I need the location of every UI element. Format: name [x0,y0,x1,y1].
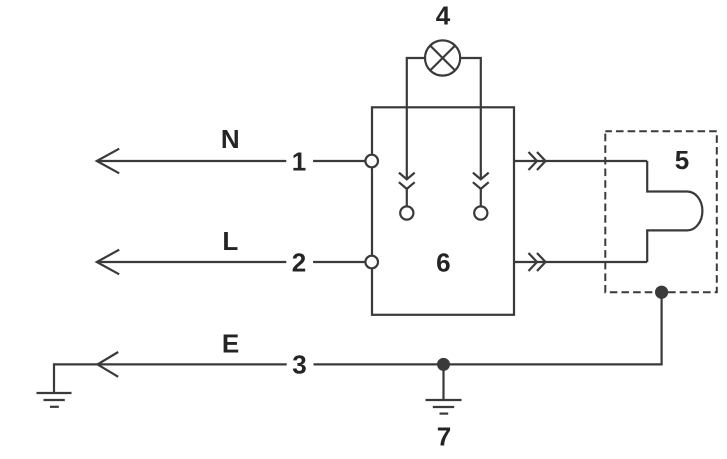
svg-text:N: N [221,124,240,154]
svg-text:1: 1 [292,146,306,176]
svg-text:E: E [222,329,239,359]
svg-text:7: 7 [437,421,451,451]
svg-text:3: 3 [292,350,306,380]
svg-text:L: L [222,226,238,256]
svg-text:2: 2 [292,247,306,277]
svg-text:5: 5 [675,145,689,175]
svg-text:4: 4 [436,1,451,31]
svg-text:6: 6 [436,247,450,277]
